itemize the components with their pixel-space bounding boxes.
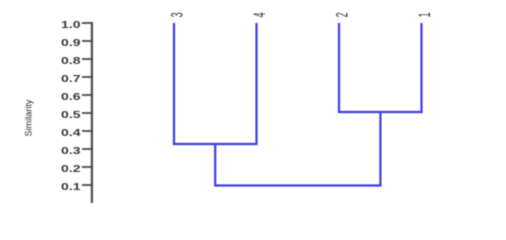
leaf 4 vertical	[255, 23, 257, 144]
svg-text:0.1: 0.1	[61, 181, 81, 193]
y-axis line	[91, 22, 93, 203]
cluster (3,4) horizontal at similarity 0.33	[173, 143, 258, 145]
svg-text:2: 2	[333, 12, 352, 17]
svg-text:0.7: 0.7	[61, 73, 81, 85]
leaf 3 vertical	[173, 23, 175, 144]
svg-text:0.8: 0.8	[61, 55, 81, 67]
leaf 2 vertical	[338, 23, 340, 112]
svg-text:0.6: 0.6	[61, 91, 81, 103]
cluster (2,1) stem	[379, 112, 381, 186]
svg-text:0.3: 0.3	[61, 145, 81, 157]
svg-text:1.0: 1.0	[61, 19, 81, 31]
svg-text:Similarity: Similarity	[24, 99, 35, 136]
cluster (3,4) stem	[214, 144, 216, 186]
svg-text:3: 3	[168, 12, 187, 17]
y-axis ticks	[82, 23, 93, 185]
svg-text:0.4: 0.4	[61, 127, 81, 139]
svg-text:4: 4	[250, 12, 269, 17]
cluster (2,1) horizontal at similarity 0.5	[338, 111, 423, 113]
svg-text:0.9: 0.9	[61, 37, 81, 49]
svg-text:0.2: 0.2	[61, 163, 81, 175]
svg-text:0.5: 0.5	[61, 109, 81, 121]
dendrogram	[173, 23, 423, 186]
svg-text:1: 1	[415, 12, 434, 17]
final merge horizontal at similarity 0.1	[214, 184, 381, 186]
y-axis tick labels	[61, 19, 81, 193]
leaf 1 vertical	[420, 23, 422, 112]
